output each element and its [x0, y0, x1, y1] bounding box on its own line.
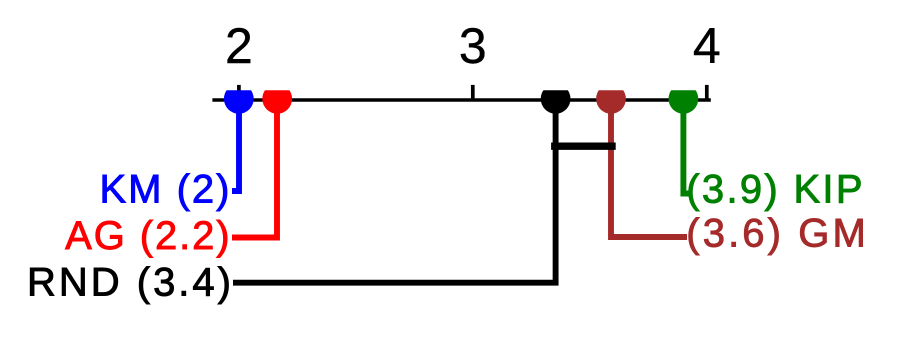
- marker GM: [596, 84, 626, 114]
- tick 3: [471, 85, 475, 100]
- marker AG: [262, 84, 292, 114]
- svg-text:2: 2: [225, 18, 253, 74]
- svg-text:AG (2.2): AG (2.2): [65, 214, 231, 258]
- wire RND elbow: [233, 100, 556, 283]
- svg-text:RND (3.4): RND (3.4): [27, 261, 234, 305]
- marker KM: [224, 84, 254, 114]
- svg-text:(3.9) KIP: (3.9) KIP: [686, 167, 865, 211]
- svg-text:KM (2): KM (2): [100, 167, 232, 211]
- svg-text:(3.6) GM: (3.6) GM: [686, 212, 869, 256]
- wire KIP elbow: [683, 100, 689, 194]
- svg-text:4: 4: [693, 18, 721, 74]
- marker RND: [541, 84, 571, 114]
- wire KM elbow: [232, 100, 239, 191]
- tick 4: [705, 85, 709, 100]
- tick 2: [237, 85, 241, 100]
- clique bar RND-GM: [551, 142, 616, 149]
- wire GM elbow: [611, 100, 687, 237]
- axis line: [212, 98, 710, 102]
- marker KIP: [669, 84, 699, 114]
- wire AG elbow: [232, 100, 277, 238]
- svg-text:3: 3: [459, 18, 487, 74]
